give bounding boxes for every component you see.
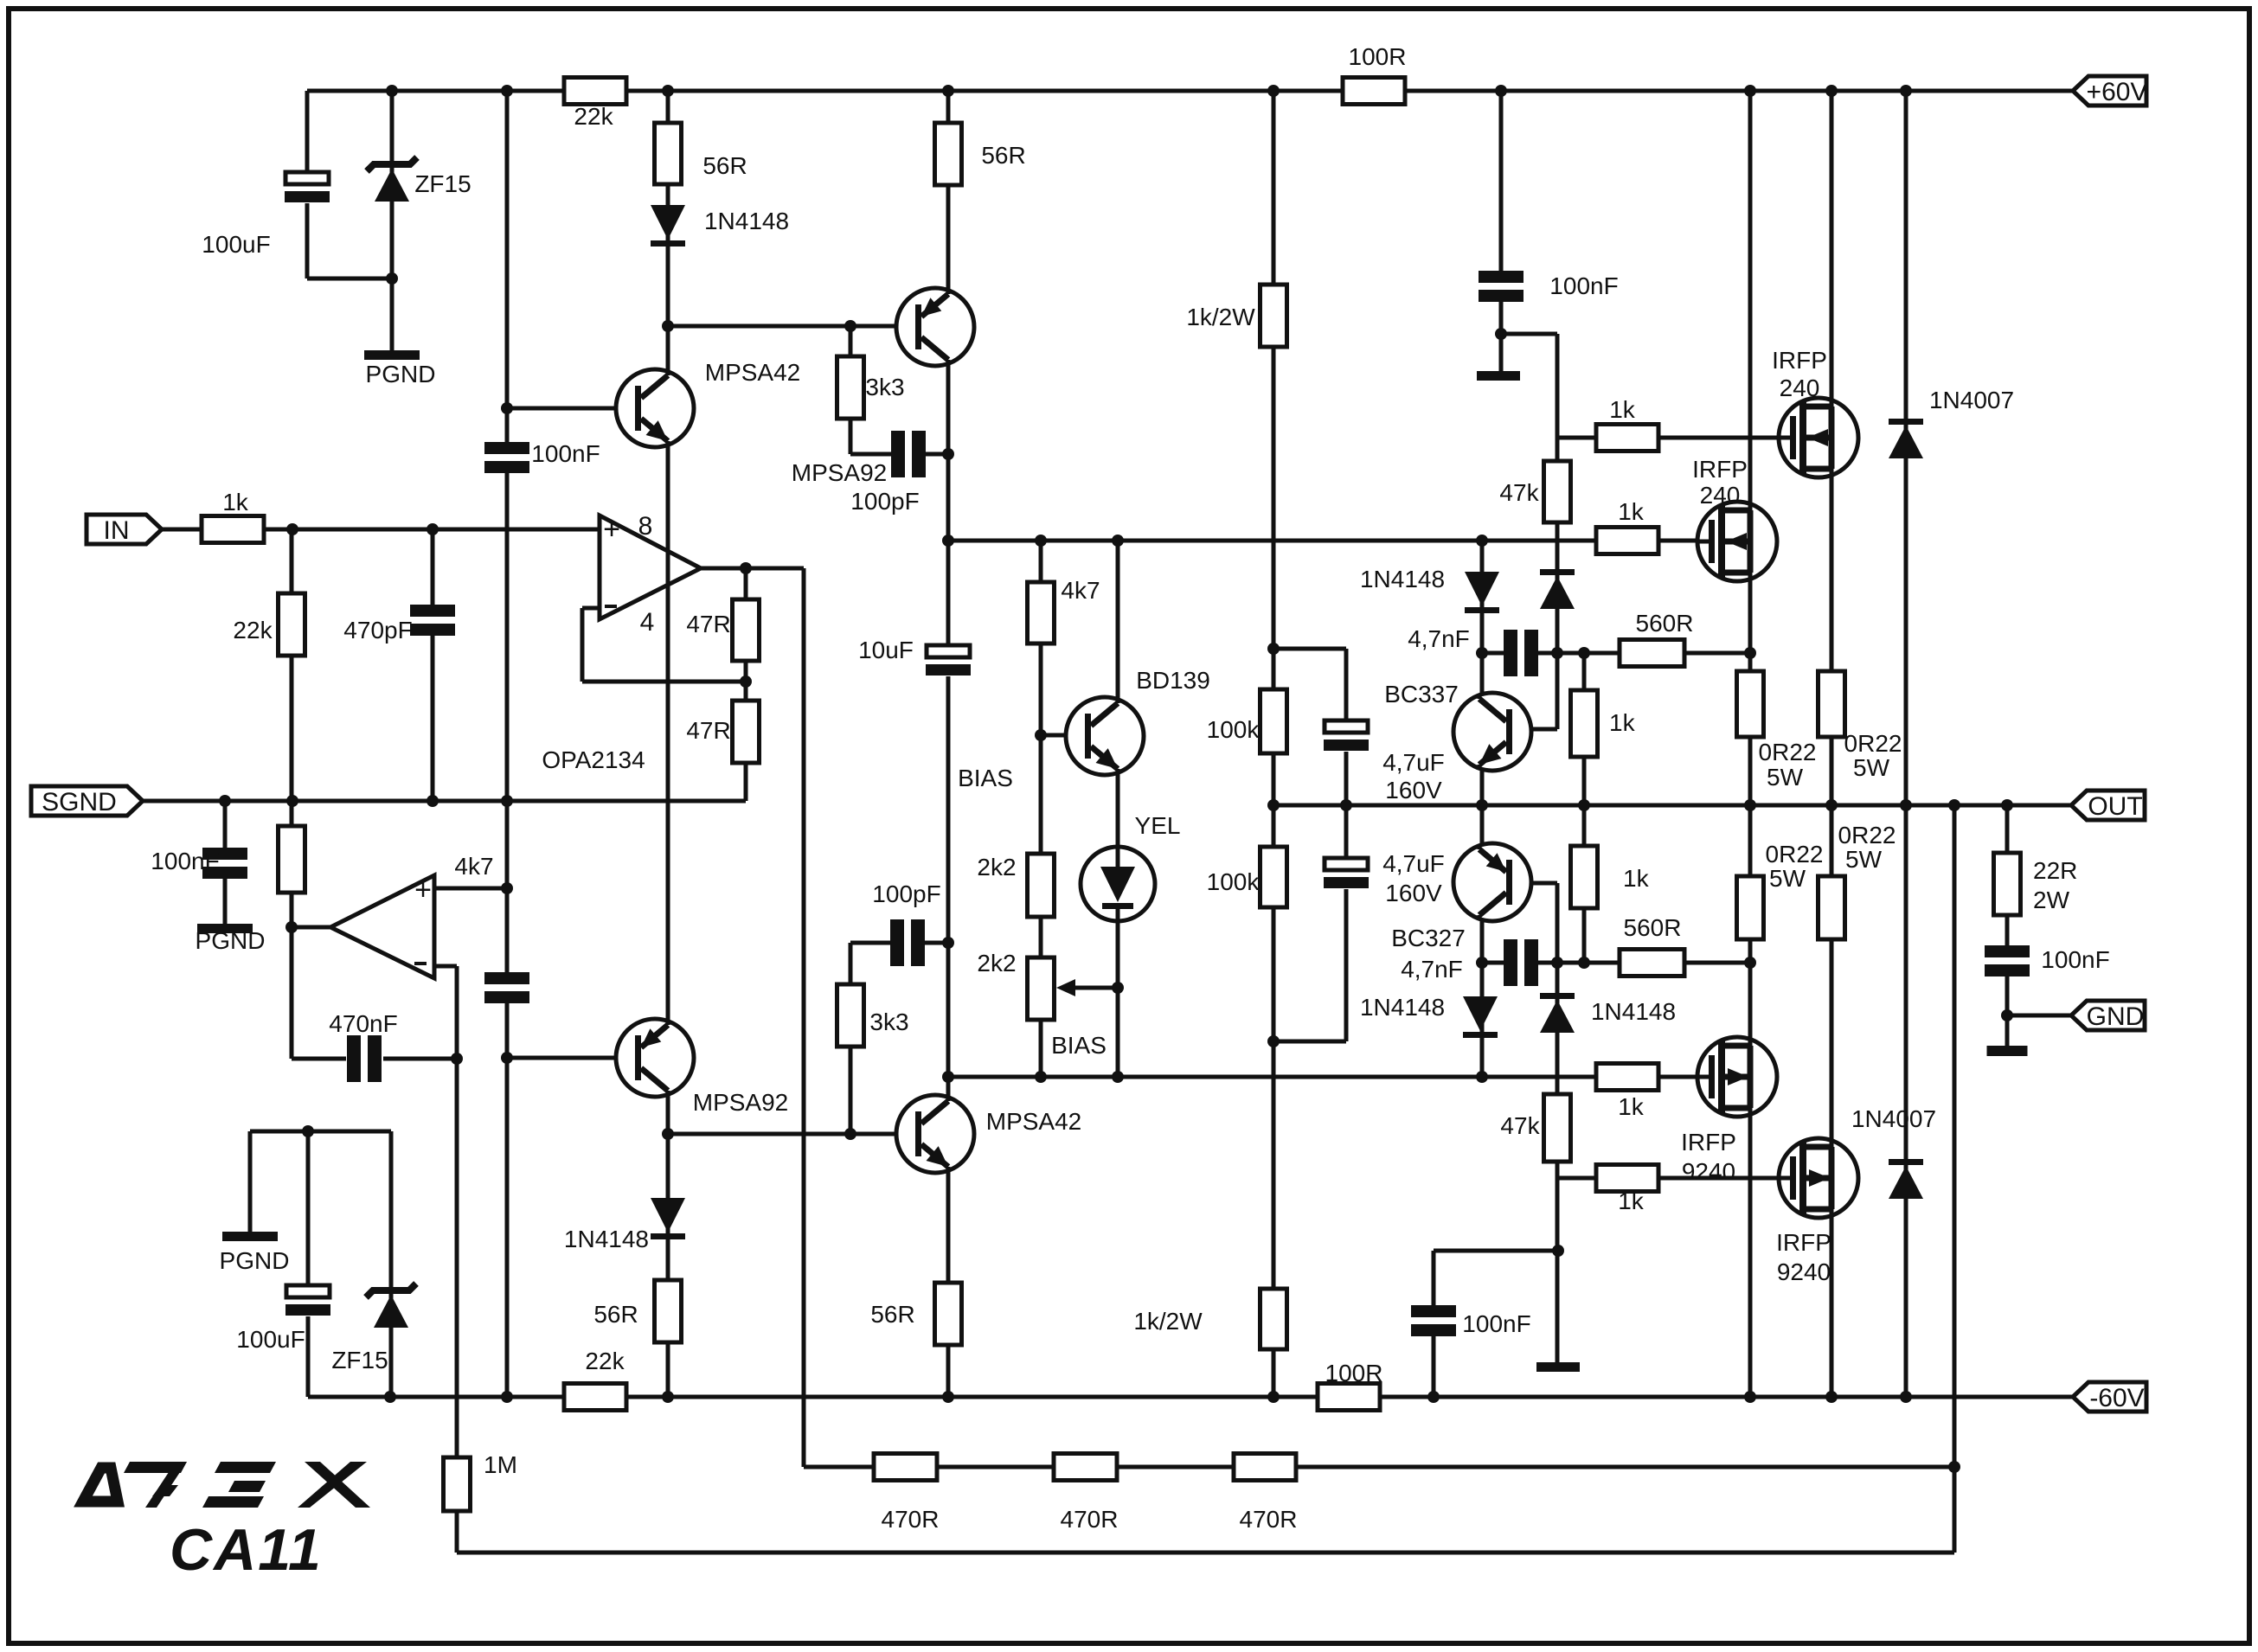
47k#1 (1544, 461, 1571, 522)
svg-text:470R: 470R (1061, 1506, 1119, 1533)
wire SGND rail (143, 799, 746, 804)
wire 470R row y=1696 (804, 1465, 1954, 1470)
2k2 pot (1028, 957, 1055, 1020)
wire GND stub (2007, 1014, 2071, 1018)
ZF15#2 (366, 1284, 416, 1297)
56R#A (655, 123, 682, 184)
100nF#1 (484, 442, 529, 473)
svg-text:100k: 100k (1207, 716, 1261, 743)
svg-text:100nF: 100nF (2041, 946, 2109, 973)
Q4 MPSA42 (896, 1095, 974, 1173)
svg-text:2k2: 2k2 (977, 854, 1016, 880)
wire 100nF bottom branch (1434, 1249, 1558, 1253)
PGND2 bar (197, 924, 253, 933)
100R#2 (1318, 1384, 1380, 1411)
wire zobel column x=2320 (2005, 805, 2010, 1046)
4k7 in (279, 826, 305, 893)
svg-text:22k: 22k (585, 1348, 625, 1374)
svg-text:1k: 1k (1609, 709, 1636, 736)
svg-text:2k2: 2k2 (977, 950, 1016, 976)
wire 1M / 470nF column x=528 (455, 966, 459, 1553)
56R#B (935, 123, 962, 185)
svg-text:IRFP: IRFP (1772, 347, 1827, 374)
22k#2v (279, 593, 305, 656)
svg-text:5W: 5W (1769, 865, 1806, 892)
1k2W#1 (1261, 285, 1287, 347)
svg-text:YEL: YEL (1135, 812, 1181, 839)
560R#1 (1620, 640, 1684, 667)
svg-text:1k: 1k (222, 489, 249, 515)
svg-text:240: 240 (1700, 482, 1741, 509)
svg-text:47k: 47k (1500, 1112, 1540, 1139)
YEL LED (1081, 847, 1155, 921)
22k#3 (564, 1384, 626, 1411)
Q3 MPSA92 (896, 288, 974, 366)
D2 1N4148 (1465, 572, 1499, 606)
IN flag (87, 515, 162, 544)
svg-text:OPA2134: OPA2134 (542, 746, 645, 773)
wire IN node (162, 528, 600, 532)
D4 1N4148 (1540, 569, 1575, 575)
wire gate row upper mosfet2 (1658, 539, 1698, 543)
svg-text:CA11: CA11 (170, 1517, 323, 1583)
svg-text:9240: 9240 (1777, 1258, 1831, 1285)
PGND3 bar (222, 1232, 278, 1241)
svg-text:4: 4 (640, 608, 655, 637)
wire 3k3 upper branch (849, 326, 853, 454)
svg-text:IN: IN (104, 516, 130, 545)
svg-text:+: + (414, 874, 432, 906)
svg-text:1N4148: 1N4148 (704, 208, 789, 234)
svg-text:47k: 47k (1499, 479, 1539, 506)
svg-text:0R22: 0R22 (1844, 730, 1902, 757)
+60V flag (2073, 76, 2146, 106)
svg-text:1k: 1k (1618, 498, 1645, 525)
svg-text:0R22: 0R22 (1838, 822, 1896, 848)
svg-text:100pF: 100pF (872, 880, 940, 907)
svg-text:SGND: SGND (42, 788, 117, 816)
wire 1k gate top row y=506 (1557, 436, 1780, 440)
4k7#B (1028, 582, 1055, 644)
PGND1 bar (364, 350, 420, 360)
470R#1 (874, 1454, 937, 1481)
100k#1 (1261, 689, 1287, 753)
svg-text:1k/2W: 1k/2W (1133, 1308, 1203, 1335)
svg-text:100nF: 100nF (531, 440, 600, 467)
100nF#T (1479, 271, 1524, 302)
0R22#2 (1819, 671, 1845, 737)
100uF#2 (285, 1284, 330, 1316)
Q1 MPSA42 (616, 369, 694, 447)
svg-text:1k: 1k (1618, 1188, 1645, 1214)
wire 47k upper vertical x=1800 (1556, 334, 1560, 729)
svg-text:MPSA42: MPSA42 (705, 359, 801, 386)
wire opamp output vertical x=929 (802, 568, 806, 1467)
svg-text:PGND: PGND (220, 1247, 290, 1274)
svg-text:4,7uF: 4,7uF (1382, 749, 1445, 776)
10uF (926, 644, 971, 676)
wire 4.7nF row upper y=755 (1482, 651, 1750, 656)
svg-text:100R: 100R (1325, 1360, 1383, 1386)
100nF#3 (202, 848, 247, 879)
svg-text:47R: 47R (686, 717, 730, 744)
svg-text:PGND: PGND (196, 927, 266, 954)
M3 IRFP9240 (1697, 1037, 1777, 1117)
wire 56R/1N4148 column x=772 full (666, 91, 670, 1397)
svg-text:5W: 5W (1853, 754, 1890, 781)
svg-text:1k: 1k (1609, 396, 1636, 423)
svg-text:100k: 100k (1207, 868, 1261, 895)
1k2W#2 (1261, 1289, 1287, 1349)
svg-text:-60V: -60V (2089, 1384, 2144, 1412)
svg-text:100nF: 100nF (1549, 272, 1618, 299)
svg-text:+: + (603, 513, 620, 546)
junction dots (386, 85, 398, 97)
wire OUT bus (1273, 804, 2071, 808)
svg-text:56R: 56R (593, 1301, 638, 1328)
bar#B (1536, 1362, 1580, 1372)
M1 IRFP240 (1779, 398, 1858, 477)
wire opamp output to corner (701, 567, 804, 571)
47R#1 (733, 599, 760, 661)
svg-text:470pF: 470pF (343, 617, 412, 644)
0R22#4 (1819, 876, 1845, 939)
svg-text:560R: 560R (1624, 914, 1682, 941)
wire opamp2 apex to 4k7 (292, 925, 330, 930)
wire BD139 collector / emitter / LED column (1116, 541, 1120, 699)
wire node B horizontal y=1311 (668, 1132, 916, 1137)
470pF (410, 605, 455, 636)
svg-text:1N4148: 1N4148 (1360, 994, 1445, 1021)
560R#2 (1620, 950, 1684, 976)
1k G1 (1596, 425, 1658, 451)
svg-text:56R: 56R (870, 1301, 914, 1328)
D1 1N4148 (651, 205, 685, 240)
56R#3 (935, 1283, 962, 1345)
svg-text:MPSA92: MPSA92 (792, 459, 888, 486)
wire base MPSA42 upper (507, 407, 638, 411)
op-amp U1 OPA2134 second half (330, 875, 434, 978)
100nF#B (1411, 1305, 1456, 1336)
svg-text:ZF15: ZF15 (414, 170, 471, 197)
svg-text:BIAS: BIAS (1051, 1032, 1107, 1059)
svg-text:1k: 1k (1623, 865, 1650, 892)
Q6 BC337 (1453, 693, 1531, 771)
svg-text:BC337: BC337 (1384, 681, 1459, 708)
svg-text:1N4148: 1N4148 (1360, 566, 1445, 592)
100pF#1 (891, 431, 926, 477)
svg-text:OUT: OUT (2088, 792, 2142, 821)
svg-text:47R: 47R (686, 611, 730, 637)
op-amp U1 OPA2134 first half (600, 515, 701, 619)
svg-text:MPSA42: MPSA42 (986, 1108, 1082, 1135)
4,7nF#1 (1504, 630, 1538, 676)
svg-text:BIAS: BIAS (958, 765, 1013, 791)
svg-text:1M: 1M (484, 1451, 517, 1478)
wire 3k3 lower branch (849, 943, 853, 1134)
svg-text:2W: 2W (2033, 887, 2070, 913)
svg-text:100uF: 100uF (236, 1326, 305, 1353)
wire -60V bottom rail (308, 1395, 2073, 1399)
wire 4.7nF row lower y=1113 (1480, 961, 1750, 965)
svg-text:5W: 5W (1767, 764, 1804, 791)
svg-text:4k7: 4k7 (1061, 577, 1100, 604)
wire PGND1 branch (390, 279, 395, 350)
ZF15#1 (367, 157, 417, 171)
1k in (202, 516, 264, 543)
wire left mosfet column x=2023 (1748, 91, 1753, 1397)
svg-text:+60V: +60V (2087, 78, 2148, 106)
svg-text:100R: 100R (1349, 43, 1407, 70)
470R#3 (1234, 1454, 1296, 1481)
wire bias pot wiper (1075, 986, 1118, 990)
svg-text:100nF: 100nF (151, 848, 219, 874)
svg-text:470nF: 470nF (329, 1010, 397, 1037)
4,7uF#1 (1324, 719, 1369, 752)
wire right mosfet column x=2117 (1830, 91, 1834, 1397)
svg-text:100nF: 100nF (1462, 1310, 1530, 1337)
Q7 BC327 (1453, 843, 1531, 921)
1k E2 (1571, 846, 1598, 908)
svg-text:1N4007: 1N4007 (1851, 1105, 1936, 1132)
wire BC327 base x=1800 lower (1510, 881, 1557, 886)
GND flag (2071, 1001, 2145, 1030)
wire -15V branch bottom-left (250, 1130, 391, 1134)
47R#2 (733, 701, 760, 763)
wire 100nF top-right column (1499, 91, 1504, 378)
wire opamp2 - input (434, 964, 457, 969)
wire 1k2W-100k column x=1472 (1272, 91, 1276, 1397)
svg-text:3k3: 3k3 (869, 1008, 908, 1035)
svg-text:IRFP: IRFP (1776, 1229, 1831, 1256)
wire upper gate bus y=625 (948, 539, 1698, 543)
svg-text:5W: 5W (1845, 846, 1883, 873)
wire base MPSA92 lower y=1223 (507, 1056, 638, 1060)
-60V flag (2073, 1382, 2146, 1412)
wire bottom feedback run y=1795 (457, 1551, 1954, 1555)
svg-text:ZF15: ZF15 (331, 1347, 388, 1373)
100uF#1 (285, 170, 330, 203)
4,7uF#2 (1324, 856, 1369, 889)
svg-text:22k: 22k (574, 103, 613, 130)
wire +60V top rail (307, 89, 2073, 93)
wire feedback column x=2259 (1953, 805, 1957, 1553)
svg-text:GND: GND (2087, 1002, 2145, 1031)
100nF#2 (484, 972, 529, 1003)
svg-text:56R: 56R (981, 142, 1025, 169)
1N4007#1 (1889, 419, 1923, 425)
svg-text:160V: 160V (1385, 880, 1442, 906)
wire 1N4007 column x=2203 (1904, 91, 1908, 1397)
1k G2 (1596, 528, 1658, 554)
svg-text:0R22: 0R22 (1766, 841, 1824, 868)
D7 1N4148 (1540, 993, 1575, 999)
svg-text:IRFP: IRFP (1692, 456, 1748, 483)
OUT flag (2071, 791, 2145, 820)
2k2#1 (1028, 854, 1055, 917)
D6 1N4148 (1463, 996, 1498, 1031)
0R22#3 (1737, 876, 1764, 939)
3k3#2 (837, 984, 864, 1047)
1k G4 (1596, 1165, 1658, 1192)
wire 1k emitter column x=1831 (1582, 653, 1587, 963)
wire 4.7uF column x=1556 (1273, 647, 1346, 651)
svg-text:56R: 56R (702, 152, 747, 179)
wire 1k gate bottom row y=1362 (1557, 1176, 1780, 1181)
0R22#1 (1737, 671, 1764, 737)
svg-text:470R: 470R (882, 1506, 940, 1533)
4,7nF#2 (1504, 939, 1538, 986)
svg-text:100uF: 100uF (202, 231, 270, 258)
M2 IRFP240 (1697, 502, 1777, 581)
D5 1N4148 (651, 1198, 685, 1233)
wire opamp2 + input (434, 887, 507, 891)
svg-text:0R22: 0R22 (1759, 739, 1817, 765)
svg-text:560R: 560R (1636, 610, 1694, 637)
1N4007#2 (1889, 1159, 1923, 1165)
svg-text:1k/2W: 1k/2W (1186, 304, 1255, 330)
svg-text:PGND: PGND (366, 361, 436, 387)
1k G3 (1596, 1064, 1658, 1091)
wire lower gate bus y=1245 (948, 1075, 1698, 1079)
wire diode/BC337 column x=1713 (1480, 541, 1485, 1077)
wire 47R column (744, 568, 748, 801)
Q5 BD139 (1066, 697, 1144, 775)
wire +15V vertical x=586 down to -15V rail (505, 91, 510, 1397)
wire BD139 base (1041, 733, 1085, 738)
470R#2 (1054, 1454, 1117, 1481)
svg-text:100pF: 100pF (850, 488, 919, 515)
wire feedback to inverting input (582, 680, 746, 684)
svg-text:1k: 1k (1618, 1093, 1645, 1120)
svg-text:3k3: 3k3 (865, 374, 904, 400)
wire 470nF row (292, 1057, 346, 1061)
svg-text:4,7uF: 4,7uF (1382, 850, 1445, 877)
svg-text:1N4148: 1N4148 (564, 1226, 649, 1252)
wire bias chain column x=1203 (1039, 541, 1043, 1077)
wire VAS column x=1096 full (946, 91, 951, 1397)
svg-text:BC327: BC327 (1391, 925, 1466, 951)
bar#T (1477, 371, 1520, 381)
svg-text:9240: 9240 (1682, 1158, 1735, 1185)
100nF#Z (1985, 945, 2030, 976)
svg-text:22k: 22k (233, 617, 273, 644)
M4 IRFP9240 (1779, 1138, 1858, 1218)
wire 100nF SGND branch (223, 801, 228, 924)
svg-text:1N4148: 1N4148 (1591, 998, 1676, 1025)
47k#2 (1544, 1094, 1571, 1162)
56R#2 (655, 1280, 682, 1342)
svg-text:MPSA92: MPSA92 (693, 1089, 789, 1116)
svg-text:10uF: 10uF (858, 637, 914, 663)
100pF#2 (890, 919, 925, 966)
100R#1 (1343, 78, 1405, 105)
earth (1987, 1046, 2028, 1056)
svg-text:1N4007: 1N4007 (1929, 387, 2014, 413)
470nF (347, 1035, 382, 1082)
svg-text:22R: 22R (2033, 857, 2077, 884)
svg-text:4,7nF: 4,7nF (1401, 956, 1463, 983)
Q2 MPSA92 (616, 1019, 694, 1097)
wire 100uF/ZF15 branch top-left (305, 91, 310, 279)
svg-text:IRFP: IRFP (1681, 1129, 1736, 1156)
3k3#1 (837, 356, 864, 419)
SGND flag (31, 786, 143, 816)
22R (1994, 853, 2021, 915)
1M (444, 1457, 471, 1511)
wire node A horizontal y=377 (668, 324, 917, 329)
1k E1 (1571, 690, 1598, 757)
svg-text:4,7nF: 4,7nF (1408, 625, 1470, 652)
svg-text:240: 240 (1780, 375, 1820, 401)
100k#2 (1261, 847, 1287, 907)
svg-text:470R: 470R (1240, 1506, 1298, 1533)
svg-text:160V: 160V (1385, 777, 1442, 804)
wire 22k/470pF verticals (290, 529, 294, 1059)
22k#1 (564, 78, 626, 105)
svg-text:8: 8 (638, 512, 653, 541)
svg-text:BD139: BD139 (1136, 667, 1210, 694)
svg-text:4k7: 4k7 (454, 853, 493, 880)
